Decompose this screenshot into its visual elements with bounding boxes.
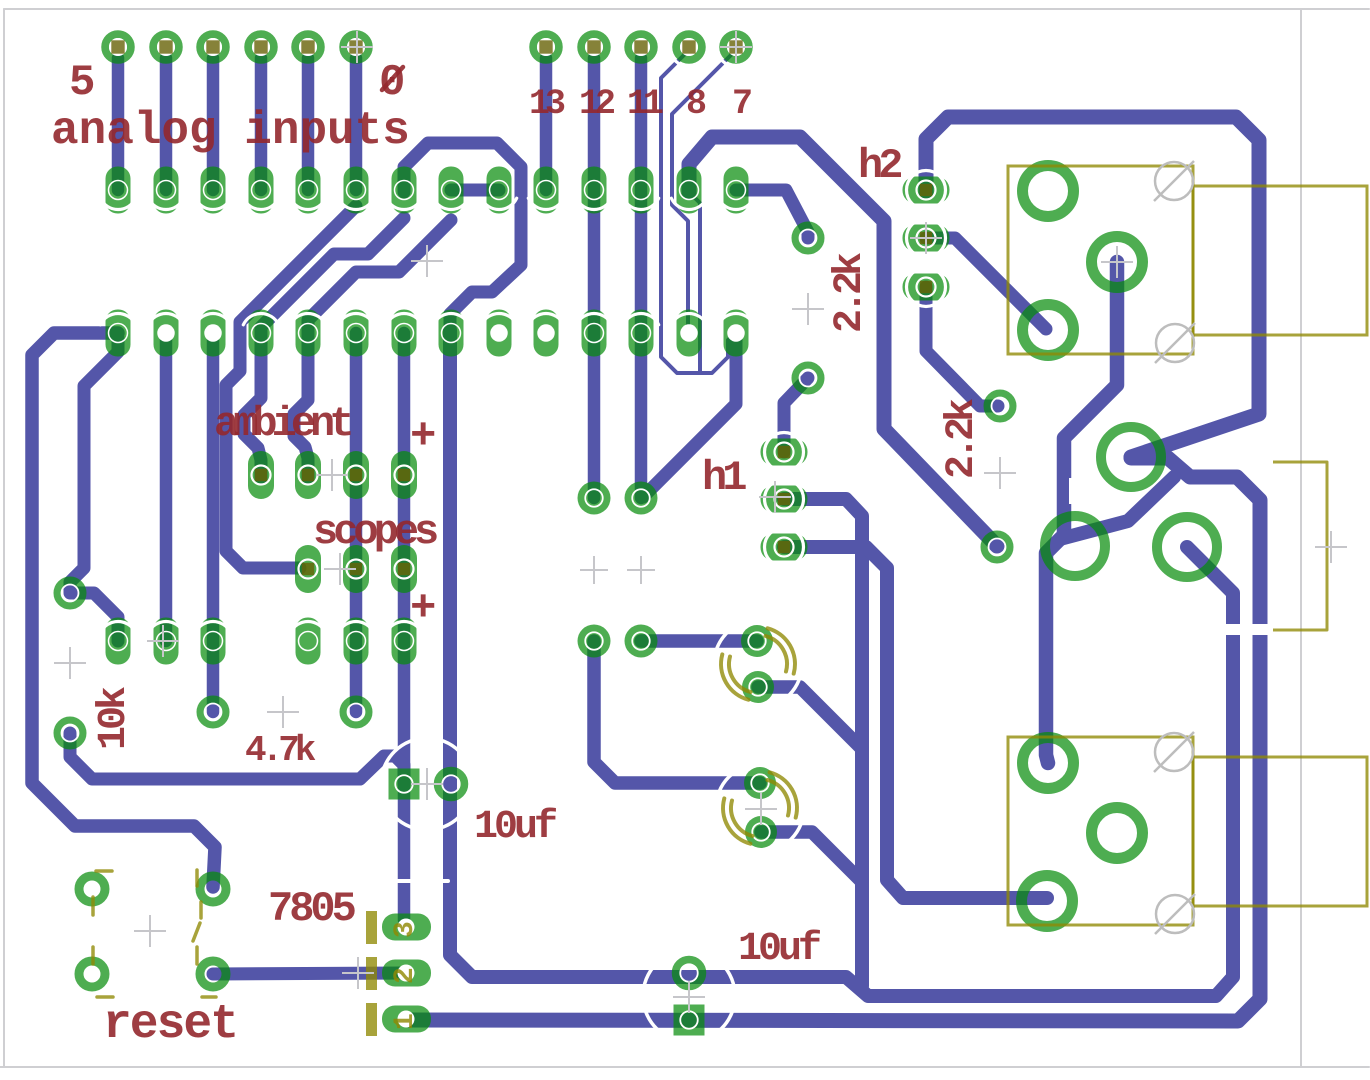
drill of 7805 pin 3	[398, 919, 415, 936]
pad IC socket U1 pin 8	[439, 310, 464, 357]
connector J2 body outline	[1008, 737, 1193, 925]
svg-text:10uf: 10uf	[474, 805, 556, 850]
drill of via V7	[992, 398, 1009, 415]
pad crystal Q1 pin 3	[578, 625, 611, 658]
pad connector J1 pin 1	[1023, 166, 1074, 217]
origin cross at 340,569	[324, 553, 356, 585]
pad header row A pin 7	[392, 167, 417, 214]
drill of via V3	[205, 704, 222, 721]
wire socket pin 7 down through 10uf to 7805 pin 3	[404, 333, 406, 927]
reset switch bracket top-right	[195, 870, 199, 886]
silk pin circle header A 11	[576, 198, 611, 209]
pad header row A pin 9	[487, 167, 512, 214]
connector J2 jack opening	[1193, 757, 1367, 906]
pad h2 pin 3	[903, 274, 950, 301]
origin cross at 70,663	[54, 647, 86, 679]
svg-text:analog inputs: analog inputs	[51, 105, 410, 157]
silk pin circle socket 2	[148, 313, 183, 324]
wire connector J1 pin 2 down to connector J2 pin 1	[1046, 262, 1117, 763]
silk pin circle socket 14	[718, 313, 753, 324]
pad 10uf C4 negative	[676, 960, 702, 986]
drill of ambient pin 3	[347, 466, 366, 485]
regulator 7805 lead 2 mark	[366, 957, 377, 990]
drill of ambient pin 4	[395, 466, 414, 485]
svg-text:11: 11	[627, 84, 663, 124]
drill of resistor pad 5	[347, 632, 366, 651]
via right V7	[988, 394, 1013, 419]
via analog 2	[248, 34, 274, 60]
drill of socket pin 12	[632, 324, 651, 343]
origin cross at 1000,473	[984, 457, 1016, 489]
drill of crystal pad 3	[585, 632, 603, 650]
silk pin circle socket 3	[195, 313, 230, 324]
drill of resistor pad 2	[157, 632, 176, 651]
drill of header row A pin 8	[442, 181, 461, 200]
silk pin circle resistor 5	[338, 621, 373, 632]
origin cross at 427,784	[411, 768, 443, 800]
silk pin circle header A 3	[195, 198, 230, 209]
reset switch actuator mark	[193, 923, 200, 941]
wire header pin 7 staircase to ambient pad 1	[244, 218, 404, 478]
svg-text:3: 3	[390, 921, 421, 938]
pad IC socket U1 pin 14	[724, 310, 749, 357]
silk pin circle h2 2	[907, 219, 946, 258]
pad scopes header pin 1	[295, 545, 321, 593]
drill hole symbol 4	[1156, 895, 1194, 933]
drill of header row A pin 1	[109, 181, 128, 200]
drill of h1 pin 3	[775, 538, 794, 557]
pad ambient header pin 2	[295, 451, 321, 499]
wire socket pin 2 to 10k resistor	[160, 333, 173, 641]
olive silkscreen (tDocu)	[93, 166, 1367, 1036]
silk pin circle socket 11	[576, 313, 611, 324]
reset switch bracket top-left	[96, 869, 112, 873]
pad header row A pin 4	[249, 167, 274, 214]
drill of via V5	[800, 230, 817, 247]
pad header row A pin 11	[582, 167, 607, 214]
wire analog input 4 via to header pin	[160, 58, 173, 190]
origin cross at 1331,547	[1315, 531, 1347, 563]
drill of top via 10	[680, 38, 698, 56]
pad jack mount hole A	[1101, 427, 1161, 487]
drill of socket pin 9	[490, 324, 508, 342]
wire h2 pad 1 along top edge down to jack J1 shield pin	[926, 117, 1259, 457]
wire analog input 3 via to header pin	[207, 58, 220, 190]
pad connector J1 pin 2	[1092, 237, 1143, 288]
wire analog input 0 via to header pin	[350, 58, 363, 190]
pad crystal Q1 pin 1	[578, 482, 611, 515]
silk body circle capacitor C3	[381, 738, 473, 830]
wire via 13 to header pin	[540, 58, 553, 190]
via left V3	[201, 700, 226, 725]
drill of header row A pin 6	[347, 181, 366, 200]
via signal 12	[581, 34, 607, 60]
pad header row A pin 13	[677, 167, 702, 214]
wire crystal pad to capacitor C1 pad	[641, 634, 757, 648]
connector J1 jack opening	[1193, 186, 1367, 335]
reset switch bracket bottom-right	[195, 947, 199, 964]
drill of capacitor pad 2	[749, 678, 767, 696]
drill of socket pin 5	[299, 324, 318, 343]
reset switch bracket bottom-left	[91, 947, 95, 964]
drill of ambient pin 1	[252, 466, 271, 485]
pad IC socket U1 pin 9	[487, 310, 512, 357]
pad ambient header pin 1	[248, 451, 274, 499]
drill of socket pin 11	[585, 324, 604, 343]
drill of top via 2	[157, 38, 175, 56]
origin cross at 689,997	[673, 981, 705, 1013]
silk pin circle header A 12	[623, 198, 658, 209]
pad jack mount hole C	[1157, 517, 1217, 577]
pad reset switch S1 pin 3	[79, 961, 105, 987]
drill of h1 pin 1	[775, 443, 794, 462]
drill of socket pin 6	[347, 324, 366, 343]
pad header row A pin 5	[296, 167, 321, 214]
drill of socket pin 7	[395, 324, 414, 343]
wire jumper between header pins 8 and 9	[451, 184, 499, 197]
silk 7805 outline fragment	[365, 879, 448, 883]
origin cross at 332,475	[316, 459, 348, 491]
capacitor C1 polarity arcs	[766, 636, 787, 672]
pad header row A pin 8	[439, 167, 464, 214]
drill of top via 8	[585, 38, 603, 56]
wire h2 pad 2 to connector J1 pin 3	[926, 238, 1046, 329]
via signal 8	[676, 34, 702, 60]
wire top loop over header to pin 7	[404, 143, 521, 336]
silk pin circle header A 14	[718, 198, 753, 209]
drill of resistor pad 6	[395, 632, 414, 651]
silk pin circle header A 2	[148, 198, 183, 209]
svg-text:2.2k: 2.2k	[828, 253, 873, 333]
silk pin circle header A 9	[481, 198, 516, 209]
reset switch pole mark	[199, 902, 203, 918]
via left V4	[344, 700, 369, 725]
origin cross at 357,47	[341, 31, 373, 63]
drill of resistor pad 3	[204, 632, 223, 651]
drill of socket pin 8	[442, 324, 461, 343]
pad IC socket U1 pin 5	[296, 310, 321, 357]
pad ambient header pin 4	[391, 451, 417, 499]
wire socket pin 6 through ambient and scopes pads to via	[350, 333, 363, 712]
drill of header row A pin 12	[632, 181, 651, 200]
svg-text:12: 12	[579, 84, 614, 124]
pads and vias (copper green)	[58, 34, 1218, 1035]
drill of top via 1	[109, 38, 127, 56]
wire header pin 8 staircase to ambient pad 2	[294, 220, 451, 478]
pad IC socket U1 pin 3	[201, 310, 226, 357]
silk pin circle header A 1	[100, 198, 135, 209]
silk notch on jack trace	[1069, 478, 1074, 504]
pad h2 pin 1	[903, 177, 950, 204]
pad capacitor C2 negative	[745, 816, 777, 848]
pad connector J2 pin 3	[1022, 876, 1073, 927]
silk pin circle h1 3	[765, 528, 804, 567]
drill of socket pin 4	[252, 324, 271, 343]
drill of scopes pin 1	[299, 560, 318, 579]
drill of 10uf pad 4	[680, 1011, 698, 1029]
pad capacitor C1 negative	[742, 671, 774, 703]
silk pin circle header A 5	[290, 198, 325, 209]
silk pin circle header A 4	[243, 198, 278, 209]
via left V2	[58, 721, 83, 746]
drill of h2 pin 3	[917, 278, 936, 297]
pad header row A pin 1	[106, 167, 131, 214]
pad reset switch S1 pin 4	[200, 961, 226, 987]
drill of 7805 pin 2	[398, 965, 415, 982]
drill of resistor pad 4	[299, 632, 318, 651]
wire h1 pad 2 down to bottom rail	[784, 499, 862, 986]
pad IC socket U1 pin 6	[344, 310, 369, 357]
pad IC socket U1 pin 11	[582, 310, 607, 357]
silk pin circle resistor 6	[386, 621, 421, 632]
drill of top via 5	[299, 38, 317, 56]
silk pin circle via 2	[717, 28, 756, 67]
silk pin circle via 1	[670, 28, 709, 67]
wire left edge loop to reset switch	[32, 333, 215, 887]
origin cross at 775,497	[759, 481, 791, 513]
origin cross at 150,931	[134, 915, 166, 947]
silk break in right verticals	[1220, 624, 1272, 635]
drill of top via 3	[204, 38, 222, 56]
pad capacitor C2 positive	[744, 767, 776, 799]
drill of top via 6	[347, 38, 365, 56]
component value labels	[51, 58, 985, 1052]
wire crystal pad to capacitor C2 pad	[594, 641, 760, 783]
wire h1 pad 3 to connector J2 pin 3	[784, 547, 1047, 898]
pad resistor network pin 5	[344, 618, 369, 665]
via right V5	[796, 226, 821, 251]
pad regulator 7805 pin 2	[382, 960, 431, 987]
drill of h2 pin 2	[917, 229, 936, 248]
regulator 7805 lead 1 mark	[366, 1003, 377, 1036]
pad resistor network pin 6	[392, 618, 417, 665]
pad connector J2 pin 2	[1092, 808, 1143, 859]
wire header pin 14 to via	[736, 190, 808, 238]
svg-text:13: 13	[529, 84, 565, 124]
wire h2 pad 3 to via	[926, 287, 998, 406]
via signal 13	[533, 34, 559, 60]
wire via 11 down to crystal pad	[635, 58, 648, 498]
drill of via V2	[62, 725, 79, 742]
pad header row A pin 3	[201, 167, 226, 214]
wire power from header pin 13 across top to via	[689, 137, 997, 546]
silk pin circle header A 6	[338, 198, 373, 209]
drill of crystal pad 1	[585, 489, 603, 507]
drill of header row A pin 9	[490, 181, 509, 200]
silk pin circle socket 9	[481, 313, 516, 324]
pad resistor network pin 4	[296, 618, 321, 665]
svg-text:2.2k: 2.2k	[940, 399, 985, 479]
origin cross at 808,309	[792, 293, 824, 325]
pad regulator 7805 pin 3	[382, 914, 431, 941]
drill of header row A pin 13	[680, 181, 699, 200]
silk body circle capacitor C1	[714, 620, 802, 708]
via analog 5	[105, 34, 131, 60]
drill of socket pin 10	[537, 324, 555, 342]
silk pin circle socket 7	[386, 313, 421, 324]
pad connector J2 pin 1	[1023, 738, 1074, 789]
silk pin circle h2 1	[907, 171, 946, 210]
svg-text:1: 1	[390, 1013, 421, 1030]
capacitor C2 polarity arcs	[768, 780, 789, 816]
silk pin circle header A 10	[528, 198, 563, 209]
origin cross at 427,261	[411, 245, 443, 277]
drill of socket pin 1	[109, 324, 128, 343]
drill of via V6	[800, 370, 817, 387]
drill of capacitor pad 1	[748, 632, 766, 650]
wire analog input 2 via to header pin	[255, 58, 268, 190]
svg-text:reset: reset	[103, 998, 237, 1052]
connector J1 body outline	[1008, 166, 1193, 354]
wire capacitor C1 pad to ground rail	[758, 687, 862, 749]
pad IC socket U1 pin 7	[392, 310, 417, 357]
drill of header row A pin 10	[537, 181, 556, 200]
pad header row A pin 12	[629, 167, 654, 214]
drill of 10uf pad 3	[395, 775, 413, 793]
svg-text:10uf: 10uf	[738, 927, 820, 972]
drill of resistor pad 1	[109, 632, 128, 651]
silk pin circle h2 3	[907, 268, 946, 307]
pad h2 pin 2	[903, 225, 950, 252]
silk pin circle socket 8	[433, 313, 468, 324]
silk pin circle h1 1	[765, 433, 804, 472]
via signal 11	[628, 34, 654, 60]
silk body circle capacitor C4	[643, 950, 735, 1042]
wire ground loop right edge and bottom to 7805 pin 1	[406, 458, 1260, 1021]
silk pin circle header A 7	[386, 198, 421, 209]
jack J3 opening bracket	[1273, 462, 1327, 630]
pad 10uf C3 positive square	[389, 769, 420, 800]
drill of header row A pin 11	[585, 181, 604, 200]
silk pin circle resistor 3	[195, 621, 230, 632]
via signal 7	[723, 34, 749, 60]
drill of header row A pin 4	[252, 181, 271, 200]
pad scopes header pin 3	[391, 545, 417, 593]
drill of via V8	[989, 539, 1006, 556]
origin cross at 761,809	[745, 793, 777, 825]
svg-text:4.7k: 4.7k	[245, 730, 316, 771]
drill of top via 7	[537, 38, 555, 56]
via analog 4	[153, 34, 179, 60]
svg-text:h1: h1	[702, 454, 746, 502]
drill of top via 9	[632, 38, 650, 56]
drill of socket pin 3	[204, 324, 222, 342]
drill of 7805 pin 1	[398, 1011, 415, 1028]
silk pin circle socket 5	[290, 313, 325, 324]
silk pin circle socket 10	[528, 313, 563, 324]
origin cross crystal pad A	[580, 556, 608, 584]
pad IC socket U1 pin 2	[154, 310, 179, 357]
pad crystal Q1 pin 2	[625, 482, 658, 515]
pad resistor network pin 3	[201, 618, 226, 665]
drill of crystal pad 4	[632, 632, 650, 650]
silk pin circle socket 12	[623, 313, 658, 324]
pad scopes header pin 2	[343, 545, 369, 593]
origin cross at 1117,262	[1101, 246, 1133, 278]
drill of ambient pin 2	[299, 466, 318, 485]
wire socket pin 14 to crystal pad	[643, 335, 736, 497]
drill of top via 4	[252, 38, 270, 56]
silk pin circle socket 6	[338, 313, 373, 324]
svg-text:ambient: ambient	[214, 400, 351, 448]
silk pin circle resistor 1	[100, 621, 135, 632]
pad drill holes	[62, 38, 1009, 1029]
wire via 12 down to crystal pad	[588, 58, 601, 498]
svg-text:7805: 7805	[268, 885, 356, 933]
pad resistor network pin 2	[154, 618, 179, 665]
svg-text:+: +	[410, 584, 436, 634]
wire analog input 5 via to header pin	[112, 58, 125, 190]
pad IC socket U1 pin 1	[106, 310, 131, 357]
origin cross at 358,973	[342, 957, 374, 989]
pad resistor network pin 1	[106, 618, 131, 665]
drill of capacitor pad 3	[751, 774, 769, 792]
wire branch from mid ring to right loop	[1060, 477, 1174, 539]
pad IC socket U1 pin 12	[629, 310, 654, 357]
wire via to 10uf capacitor positive pad	[70, 733, 404, 784]
wire socket pin 3 down to via	[207, 333, 220, 712]
silk pin circle resistor 2	[148, 621, 183, 632]
svg-text:10k: 10k	[92, 687, 137, 750]
pad header row A pin 14	[724, 167, 749, 214]
pad regulator 7805 pin 1	[382, 1006, 431, 1033]
svg-text:5: 5	[69, 58, 95, 108]
svg-text:h2: h2	[858, 142, 901, 190]
pad connector J1 pin 3	[1023, 305, 1074, 356]
wire header pin 6 staircase to scopes pad 1	[226, 206, 356, 568]
wire via to h1 pad 1	[784, 378, 808, 452]
drill of socket pin 14	[727, 324, 745, 342]
origin cross at 926,238	[910, 222, 942, 254]
origin cross at 163,641	[147, 625, 179, 657]
origin cross at 736,47	[720, 31, 752, 63]
origin cross crystal pad B	[627, 556, 655, 584]
drill of top via 11	[727, 38, 745, 56]
silk notch near via	[996, 478, 999, 494]
wire signal 8 thin trace to socket pin	[661, 50, 735, 373]
origin cross at 283,712	[267, 696, 299, 728]
pad ambient header pin 3	[343, 451, 369, 499]
via analog 3	[200, 34, 226, 60]
silk pin circle header A 13	[671, 198, 706, 209]
drill of h1 pin 2	[775, 490, 794, 509]
svg-text:scopes: scopes	[313, 508, 437, 556]
pad h1 pin 2	[761, 486, 808, 513]
silk pin circle header A 8	[433, 198, 468, 209]
drill of 10uf pad 2	[680, 964, 698, 982]
pad header row A pin 6	[344, 167, 369, 214]
wire ring pin down right side across bottom and up to header	[450, 330, 1233, 996]
regulator 7805 lead 3 mark	[366, 911, 377, 944]
silk pin circle h1 2	[765, 480, 804, 519]
drill of header row A pin 3	[204, 181, 223, 200]
drill of h2 pin 1	[917, 181, 936, 200]
pad header row A pin 2	[154, 167, 179, 214]
drill of header row A pin 5	[299, 181, 318, 200]
silk pin circle socket 1	[100, 313, 135, 324]
drill hole symbol 3	[1155, 733, 1193, 771]
wire resistor pad to via	[72, 593, 118, 641]
pad header row A pin 10	[534, 167, 559, 214]
pad IC socket U1 pin 13	[677, 310, 702, 357]
wire capacitor C2 pad to ground rail	[761, 832, 861, 881]
svg-text:2: 2	[390, 967, 421, 984]
silk pin circle socket 13	[671, 313, 706, 324]
via right V8	[985, 535, 1010, 560]
pad reset switch S1 pin 2	[200, 876, 226, 902]
via analog 1	[295, 34, 321, 60]
via analog 0	[343, 34, 369, 60]
